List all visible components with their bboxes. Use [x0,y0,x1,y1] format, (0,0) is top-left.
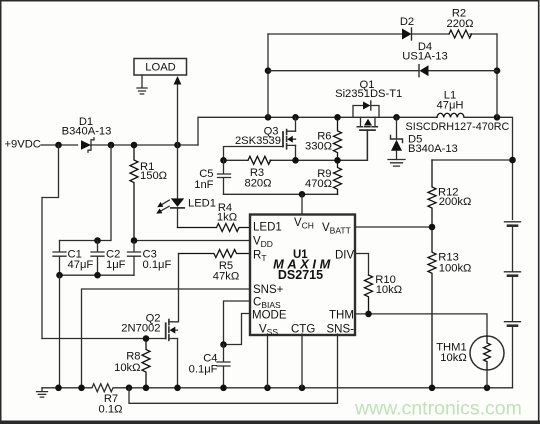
wire MODE to C4 [224,314,251,345]
wire VSS to ground [267,334,269,388]
node junction left column x268 [265,114,272,121]
wire +9VDC input to D1 anode [41,144,78,146]
wire rail from +9VDC down to Q2 gate wire [42,145,59,339]
wire THM pin to thermistor [355,314,487,336]
node junction C2 bottom [94,272,101,279]
svg-text:1μF: 1μF [106,259,126,271]
svg-text:0.1μF: 0.1μF [143,259,172,271]
node junction LED/LOAD branch [174,142,181,149]
svg-text:47kΩ: 47kΩ [213,271,239,283]
node junction x268 y71 [265,67,272,74]
svg-text:0.1μF: 0.1μF [189,364,218,376]
resistor R9 470ohm [305,160,342,194]
wire C1 rail down to ground wire [59,275,61,388]
node junction R8 bottom [143,385,150,392]
svg-text:SNS+: SNS+ [253,284,284,296]
resistor R5 47k on RT pin [179,250,251,283]
node junction SNS- branch [126,385,133,392]
capacitor C5 1nF [194,160,230,194]
node junction VSS bottom [264,385,271,392]
diode D5 B340A-13 schottky [391,117,458,159]
battery 3-cell stack [505,222,521,388]
svg-text:10kΩ: 10kΩ [114,362,140,374]
wire left vertical x268 [267,34,269,117]
svg-text:B340A-13: B340A-13 [408,143,458,155]
LOAD box [134,59,187,76]
diode D1 B340A-13 schottky [62,116,112,152]
svg-text:LED1: LED1 [253,222,282,234]
transistor Q1 Si2351DS-T1 pmos [335,79,402,160]
node junction R8 top on gate wire [143,335,150,342]
node junction +9VDC rail A [55,142,62,149]
resistor R13 100k [428,227,471,388]
resistor R6 330ohm [305,117,342,160]
ground symbol bottom left [37,388,48,397]
svg-text:Si2351DS-T1: Si2351DS-T1 [335,88,402,100]
thermistor THM1 10k [436,336,504,370]
transistor Q2 2N7002 nmos [121,313,177,341]
svg-text:10kΩ: 10kΩ [440,352,466,364]
svg-text:200kΩ: 200kΩ [439,196,472,208]
wire Q2 gate net [42,338,166,340]
wire second rail y71 [268,70,497,72]
svg-text:47μH: 47μH [437,99,464,111]
resistor R1 150ohm [130,145,167,241]
capacitor C4 0.1uF [189,345,230,388]
svg-text:1nF: 1nF [194,179,213,191]
capacitor C2 1uF [91,241,126,276]
wire Q3 gate lead [224,147,284,161]
svg-text:DIV: DIV [335,250,355,262]
node junction R1 top [131,142,138,149]
node junction SNS+ / ground wire [78,385,85,392]
node junction Q3 drain [292,114,299,121]
svg-text:220Ω: 220Ω [446,18,473,30]
wire CTG to ground [301,334,303,388]
svg-text:470Ω: 470Ω [305,178,332,190]
capacitor C3 0.1uF [128,241,172,276]
node junction cap-top rail [108,142,115,149]
resistor R3 820ohm [244,156,271,189]
node junction R6/R9 [334,157,341,164]
resistor R2 220ohm [446,8,473,39]
node junction x497 y71 [494,67,501,74]
wire R3 row y160 [224,131,368,161]
wire VDD net R1 bottom to IC [134,240,250,242]
op-amp U1 DS2715 IC box [250,215,355,338]
LED1 emission arrows [156,200,169,213]
svg-text:MODE: MODE [252,310,287,322]
wire Q2 source to ground rail [177,339,179,388]
svg-text:SISCDRH127-470RC: SISCDRH127-470RC [406,121,510,133]
inductor L1 47uH [406,90,510,133]
node junction CTG bottom [299,385,306,392]
svg-text:330Ω: 330Ω [305,140,332,152]
node junction D5 top [393,114,400,121]
svg-text:2N7002: 2N7002 [121,323,160,335]
node +9VDC input label [5,139,41,151]
wire R5 down to Q2 drain [178,254,180,322]
svg-text:47μF: 47μF [68,259,94,271]
node junction R1/C3/VDD [131,237,138,244]
node junction R13 bottom [429,385,436,392]
node junction R10 bottom [365,311,372,318]
node junction Q3 source [292,157,299,164]
svg-text:0.1Ω: 0.1Ω [99,404,123,416]
ground under D5 [388,160,405,167]
svg-text:LED1: LED1 [188,198,216,210]
resistor R4 1k to LED1 pin [178,202,251,232]
svg-text:CTG: CTG [291,324,315,336]
svg-text:10kΩ: 10kΩ [376,284,402,296]
wire top rail y34 [268,33,497,35]
wire arrow into LOAD [174,76,182,145]
wire VCH stub [301,194,303,214]
svg-text:1kΩ: 1kΩ [217,212,237,224]
svg-text:100kΩ: 100kΩ [439,262,472,274]
node junction THM1 bottom [484,385,491,392]
resistor R12 200k [428,160,471,227]
node junction C4 top [220,341,227,348]
wire R12 top link [432,159,513,161]
svg-text:2SK3539: 2SK3539 [235,135,281,147]
wire caps bottom rail [60,274,135,276]
wire DIV pin to R10 [355,254,369,276]
wire SNS- return path [129,334,338,403]
node junction battery rail y160 [509,157,516,164]
wire L1 out to battery rail [464,117,513,219]
svg-text:B340A-13: B340A-13 [62,125,112,137]
wire ground bottom rail with resistor R7 0.1ohm [42,384,513,416]
resistor R8 10k [114,339,150,388]
svg-text:THM: THM [329,310,354,322]
svg-text:D2: D2 [400,16,414,28]
wire THM1 to ground rail [486,370,488,388]
node junction C2 top [94,237,101,244]
wire CBIAS to C4 [224,301,251,345]
node junction L1 right / top rail [494,114,501,121]
diode D2 [400,16,414,40]
diode D4 US1A-13 [402,41,447,77]
svg-text:+9VDC: +9VDC [5,139,41,151]
svg-text:820Ω: 820Ω [244,177,271,189]
svg-text:DS2715: DS2715 [278,268,323,282]
LED LED1 [171,145,216,228]
node junction R6 top [334,114,341,121]
node junction VCH branch [299,191,306,198]
svg-text:150Ω: 150Ω [140,170,167,182]
transistor Q3 2SK3539 nmos [235,117,296,160]
node junction rail-A / ground wire [55,385,62,392]
node junction C5/gate [220,157,227,164]
svg-text:SNS-: SNS- [327,324,355,336]
svg-text:US1A-13: US1A-13 [402,51,447,63]
svg-text:www.cntronics.com: www.cntronics.com [354,398,522,420]
ground under LOAD [137,75,147,94]
wire cap top rail to +9VDC [60,145,112,241]
svg-text:LOAD: LOAD [145,62,175,74]
wire SNS+ net to R7 left [82,289,251,388]
wire switch-node rail y117 [198,117,437,145]
wire C5 bottom row to R9 bottom [224,193,338,195]
wire VBATT to divider [355,226,432,228]
capacitor C1 47uF [53,241,93,276]
wire right vertical x497 [496,34,498,117]
wire D1 cathode to corner x198 [91,144,199,146]
node junction C4 bottom [220,385,227,392]
node junction R12/R13/VBATT [429,224,436,231]
node junction Q2 source [174,385,181,392]
node junction C1 bottom [56,272,63,279]
resistor R10 10k [365,274,403,314]
svg-text:R8: R8 [126,351,140,363]
